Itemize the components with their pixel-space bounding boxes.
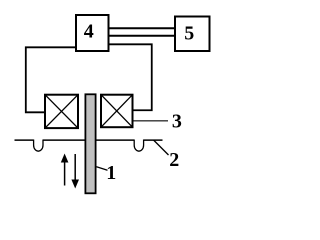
wire from box 4 right side down to right coil [109, 44, 152, 110]
right coil X diagonal 2 [101, 95, 133, 128]
svg-text:3: 3 [172, 111, 182, 133]
surface notch left [34, 140, 43, 152]
surface line segment right end [144, 139, 163, 141]
svg-text:1: 1 [106, 162, 116, 184]
bus line upper between box 4 and box 5 [109, 27, 175, 29]
wire from box 4 left side down to left coil [26, 47, 76, 112]
surface notch right [134, 140, 143, 152]
left coil X diagonal 1 [45, 95, 78, 128]
bus line lower between box 4 and box 5 [109, 35, 175, 37]
bar 1 (moving rod) [85, 94, 95, 193]
svg-text:4: 4 [84, 20, 94, 42]
left coil box [45, 95, 78, 128]
down arrow head [71, 180, 79, 189]
box 4 [76, 15, 109, 51]
leader line to label 2 [154, 140, 169, 155]
svg-text:2: 2 [169, 149, 179, 171]
left coil X diagonal 2 [45, 95, 78, 128]
up arrow shaft [64, 161, 66, 186]
surface line segment middle [43, 139, 134, 141]
right coil X diagonal 1 [101, 95, 133, 128]
box 5 [175, 17, 210, 52]
right coil box [101, 95, 133, 128]
svg-text:5: 5 [184, 23, 194, 45]
down arrow shaft [74, 154, 76, 181]
leader line to label 1 [97, 167, 108, 171]
surface line segment left end [15, 139, 34, 141]
leader line to label 3 [134, 120, 169, 122]
up arrow head [61, 154, 69, 163]
